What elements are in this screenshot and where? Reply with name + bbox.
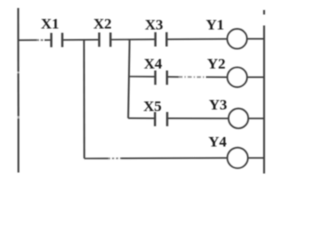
svg-text:Y2: Y2 <box>207 57 225 73</box>
wire: node B branch to contact X4 (rung 2) <box>128 76 155 78</box>
contact X4 <box>155 71 167 85</box>
coil Y1 <box>227 29 247 49</box>
right power rail <box>263 10 265 174</box>
wire: X4 to coil Y2 <box>167 76 227 78</box>
wire: coil Y4 to right rail <box>248 157 264 159</box>
coil Y4 <box>227 148 248 169</box>
contact X5 <box>155 112 167 126</box>
wire: branch from node B down to rung 3 <box>128 40 129 119</box>
coil Y2 <box>227 67 247 87</box>
wire: coil Y3 to right rail <box>248 117 264 119</box>
contact X3 <box>155 32 166 46</box>
svg-text:Y3: Y3 <box>209 98 227 114</box>
svg-text:X1: X1 <box>41 17 59 33</box>
svg-text:X5: X5 <box>143 99 161 115</box>
coil Y3 <box>229 109 249 129</box>
contact X1 <box>51 33 62 47</box>
wire: node B branch to contact X5 (rung 3) <box>128 117 155 119</box>
wire: coil Y1 to right rail <box>247 38 264 40</box>
wire: X5 to coil Y3 <box>167 117 228 119</box>
wire: rung 4 to coil Y4 <box>84 157 227 160</box>
svg-text:Y1: Y1 <box>206 18 224 34</box>
svg-text:Y4: Y4 <box>208 134 227 150</box>
contact X2 <box>99 33 110 47</box>
left power rail <box>17 8 19 173</box>
wire: X2 to X3 (through node B) <box>111 38 156 40</box>
svg-text:X2: X2 <box>93 17 111 33</box>
wire: coil Y2 to right rail <box>247 76 264 78</box>
wire: X3 to coil Y1 <box>167 38 228 40</box>
wire: branch from node A down to rung 4 <box>83 40 85 159</box>
wire: left rail to contact X1 (rung 1) <box>18 39 51 41</box>
svg-text:X3: X3 <box>145 18 163 34</box>
wire: X1 to X2 (through node A) <box>62 39 99 41</box>
svg-text:X4: X4 <box>144 57 163 73</box>
